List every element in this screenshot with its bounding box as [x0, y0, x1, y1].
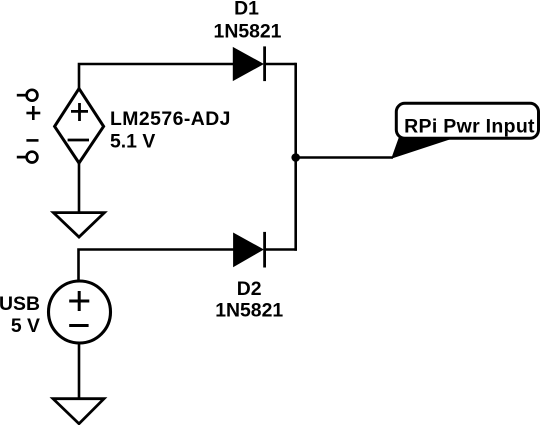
wire vertical bus from D1 to D2 — [294, 63, 297, 251]
svg-text:RPi Pwr Input: RPi Pwr Input — [404, 116, 535, 138]
net flag RPi Pwr Input — [392, 103, 539, 158]
wire junction to net flag — [296, 156, 393, 159]
wire bottom from USB up and right to D2 anode — [79, 250, 235, 282]
diode D2 — [234, 232, 265, 268]
diode D1 — [234, 46, 265, 81]
node junction — [291, 153, 300, 162]
svg-text:D2: D2 — [237, 278, 262, 300]
wire V1 bottom to ground — [78, 163, 81, 213]
svg-text:5 V: 5 V — [11, 315, 40, 337]
svg-text:5.1 V: 5.1 V — [110, 130, 155, 152]
wire D1 cathode to bus corner — [265, 63, 296, 66]
voltage source V1 LM2576-ADJ (diamond dependent source) — [55, 89, 104, 163]
wire USB bottom to ground — [78, 343, 81, 399]
svg-text:1N5821: 1N5821 — [215, 300, 283, 322]
svg-text:USB: USB — [0, 293, 40, 315]
svg-text:D1: D1 — [234, 0, 259, 20]
svg-text:LM2576-ADJ: LM2576-ADJ — [110, 108, 231, 130]
ground (V1) — [53, 213, 104, 237]
terminal negative output port — [17, 140, 39, 162]
wire D2 cathode to bus corner — [265, 248, 297, 251]
terminal positive output port — [17, 90, 41, 120]
ground (USB) — [53, 399, 104, 424]
voltage source USB 5 V — [49, 281, 111, 343]
svg-text:1N5821: 1N5821 — [214, 20, 282, 42]
wire top from V1 up and right to D1 anode — [79, 64, 234, 89]
